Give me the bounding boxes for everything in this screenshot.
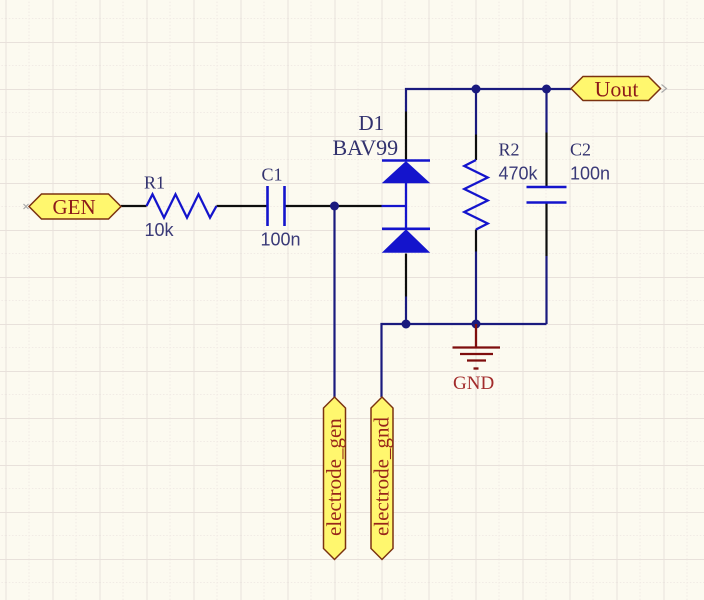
wire: C2 top <box>545 89 547 133</box>
ground GND <box>453 324 501 369</box>
no-ERC mark at Uout <box>662 85 667 93</box>
junction ground bus at GND/R2 <box>472 320 481 329</box>
wire top: node Uout net <box>406 89 571 112</box>
capacitor C2 <box>527 186 567 189</box>
junction ground bus at D1 <box>402 320 411 329</box>
pin: R1 to C1 <box>217 205 268 207</box>
capacitor C1 <box>266 186 269 226</box>
svg-text:GND: GND <box>453 373 494 394</box>
pin: D1 bottom <box>405 254 407 297</box>
wire: C2 bottom <box>545 256 547 324</box>
svg-text:C1: C1 <box>262 165 283 185</box>
svg-text:Uout: Uout <box>595 77 639 102</box>
pin: C1 to node <box>285 205 382 207</box>
port electrode_gnd <box>371 397 393 560</box>
svg-text:C2: C2 <box>570 140 591 160</box>
resistor R1 <box>147 194 217 217</box>
svg-text:BAV99: BAV99 <box>333 135 399 160</box>
resistor R2 <box>464 160 487 230</box>
junction Uout net at R2 top <box>472 85 481 94</box>
svg-text:470k: 470k <box>499 164 539 184</box>
junction Uout net at C2 top <box>542 85 551 94</box>
pin: R2 bottom <box>475 230 477 252</box>
svg-text:electrode_gen: electrode_gen <box>322 418 346 536</box>
wire: C1 output stub to D1 <box>382 205 407 207</box>
wire: ground bus <box>382 324 547 397</box>
pin: R2 top <box>475 135 477 161</box>
svg-text:electrode_gnd: electrode_gnd <box>370 417 394 536</box>
svg-text:10k: 10k <box>145 220 175 240</box>
port Uout <box>571 77 661 101</box>
wire: R2 bottom <box>475 252 477 325</box>
pin: C2 top <box>545 133 547 187</box>
pin: D1 top <box>405 112 407 161</box>
svg-text:R1: R1 <box>144 173 165 193</box>
wire: D1 bottom to bus <box>405 297 407 325</box>
pin: C2 bottom <box>545 204 547 257</box>
pin: GEN to R1 <box>121 205 147 207</box>
svg-text:100n: 100n <box>261 230 301 250</box>
no-ERC mark at GEN <box>24 204 29 209</box>
diode D1 BAV99 <box>382 159 430 162</box>
port electrode_gen <box>324 397 346 560</box>
wire: junction down to electrode_gen <box>333 206 335 397</box>
svg-text:GEN: GEN <box>53 195 96 219</box>
svg-text:100n: 100n <box>570 164 610 184</box>
svg-text:D1: D1 <box>359 111 385 135</box>
svg-text:R2: R2 <box>499 140 520 160</box>
port GEN <box>29 194 121 219</box>
junction at C1 output / electrode_gen tap <box>330 202 339 211</box>
wire: R2 top <box>475 89 477 135</box>
